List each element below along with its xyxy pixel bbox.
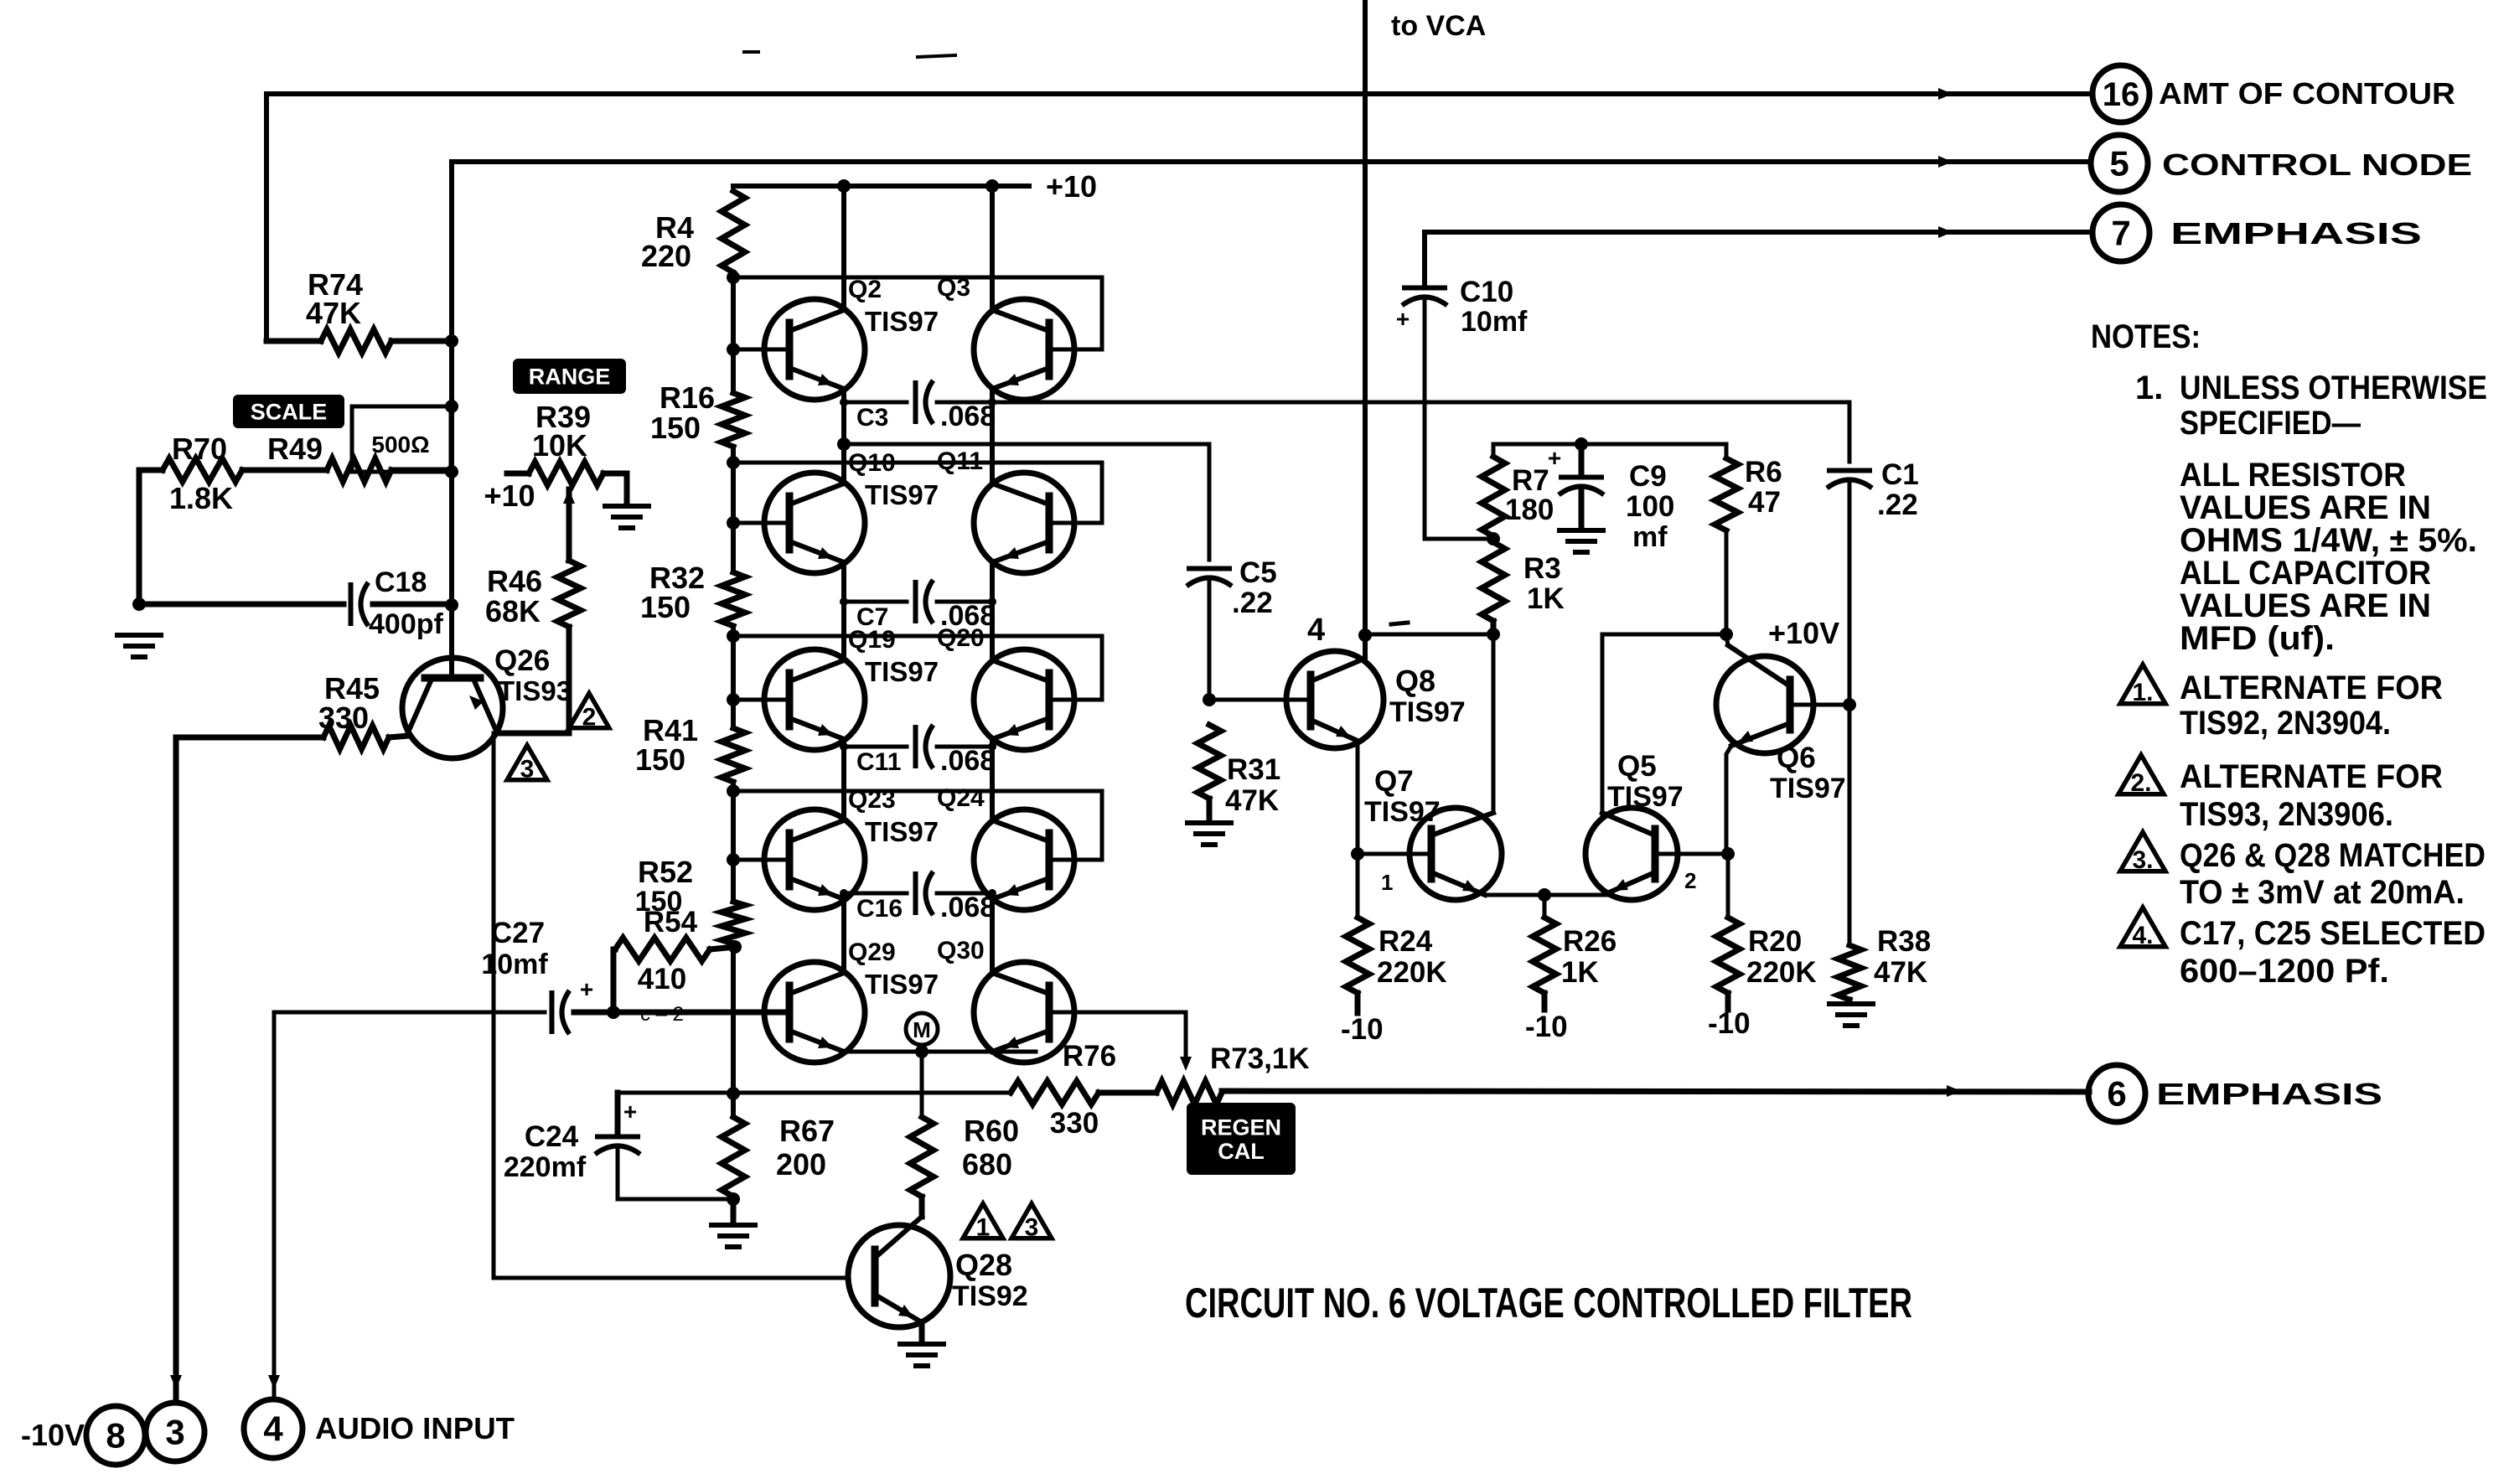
svg-text:R54: R54 xyxy=(644,906,698,938)
wire emitter Q24 to cap xyxy=(991,893,995,899)
wire ladder cell1-cell2 xyxy=(731,349,736,393)
Q8 collector diagonal xyxy=(1311,659,1364,681)
wire ladder R32-cell3 xyxy=(731,626,736,700)
Q8 base lead xyxy=(1209,698,1311,702)
svg-text:3: 3 xyxy=(165,1413,184,1452)
svg-text:TIS92: TIS92 xyxy=(952,1280,1028,1312)
note triangle 3 at Q28 xyxy=(1011,1203,1052,1238)
wire C24 bottom loop xyxy=(618,1146,733,1199)
svg-text:410: 410 xyxy=(638,963,686,995)
svg-text:ALL RESISTOR: ALL RESISTOR xyxy=(2180,457,2406,494)
transistor Q5 body xyxy=(1585,808,1678,900)
svg-text:150: 150 xyxy=(635,742,685,777)
resistor R31 xyxy=(1198,725,1221,799)
Q8 emitter arrow xyxy=(1336,726,1351,737)
node Q8 base xyxy=(1203,693,1216,706)
Q6 emitter arrow xyxy=(1738,731,1753,742)
node cap right C7 xyxy=(988,597,996,606)
wire Q5 base node to R20 xyxy=(1726,854,1730,918)
wire to VCA vertical xyxy=(1363,0,1368,660)
transistor Q19 body xyxy=(764,649,865,750)
wire R67 bottom to ground xyxy=(731,1199,737,1223)
wire ladder cell2-R32 xyxy=(731,523,736,572)
svg-text:150: 150 xyxy=(640,590,691,624)
node Q6 base xyxy=(1843,698,1856,711)
wire left end down xyxy=(139,470,163,508)
svg-text:ALTERNATE FOR: ALTERNATE FOR xyxy=(2180,670,2443,706)
svg-text:2: 2 xyxy=(582,703,597,731)
wire base loop Q20 to ladder xyxy=(733,636,1102,700)
svg-text:150: 150 xyxy=(650,411,701,445)
svg-text:+10: +10 xyxy=(484,478,535,513)
svg-text:ALTERNATE FOR: ALTERNATE FOR xyxy=(2180,758,2443,795)
svg-text:1: 1 xyxy=(976,1213,991,1241)
Q6 collector diagonal xyxy=(1728,645,1790,686)
node Q5 base/Q6 emitter xyxy=(1721,847,1735,861)
svg-text:16: 16 xyxy=(2103,76,2140,113)
svg-text:1.: 1. xyxy=(2135,370,2163,406)
node C9 top xyxy=(1575,437,1588,451)
svg-text:R26: R26 xyxy=(1563,925,1617,958)
svg-text:Q10: Q10 xyxy=(848,449,896,477)
svg-text:1K: 1K xyxy=(1527,582,1565,615)
wire Q26 emitter down to Q28 base xyxy=(494,733,848,1278)
Q7 emitter arrow xyxy=(1462,880,1477,892)
svg-text:4.: 4. xyxy=(2132,922,2153,949)
node C18 row xyxy=(445,598,458,612)
wire Q29/Q30 emitter row xyxy=(844,1050,1036,1054)
Q6 base lead xyxy=(1790,703,1849,707)
wire R45 to Q26 collector xyxy=(389,736,409,737)
svg-text:mf: mf xyxy=(1632,521,1668,553)
node 500-box top xyxy=(445,400,458,413)
svg-text:VALUES ARE IN: VALUES ARE IN xyxy=(2180,587,2431,624)
resistor R74 xyxy=(266,339,321,344)
svg-text:TIS97: TIS97 xyxy=(1607,781,1684,813)
node cap left C16 xyxy=(840,889,848,897)
node cap right C3 xyxy=(988,398,996,406)
svg-text:R67: R67 xyxy=(779,1114,835,1148)
svg-text:+10: +10 xyxy=(1046,169,1097,204)
svg-text:680: 680 xyxy=(962,1147,1012,1182)
svg-text:Q29: Q29 xyxy=(848,938,896,966)
resistor R7 xyxy=(1482,457,1505,536)
wire C24 top corner to R76 xyxy=(618,1091,1011,1095)
ground under C18 row xyxy=(117,633,161,638)
svg-text:Q20: Q20 xyxy=(937,624,985,652)
Q28 emitter diagonal xyxy=(875,1295,922,1322)
capacitor C1 xyxy=(1827,468,1872,473)
node Q7 base xyxy=(1351,847,1364,861)
resistor R4 xyxy=(722,191,745,272)
svg-text:8: 8 xyxy=(106,1416,125,1456)
note triangle 3 xyxy=(2120,832,2165,871)
right collector rail x=1184 xyxy=(990,186,995,310)
node cap right C11 xyxy=(988,742,996,751)
svg-text:Q26 & Q28 MATCHED: Q26 & Q28 MATCHED xyxy=(2180,837,2486,874)
Q5 collector diagonal xyxy=(1602,813,1655,835)
svg-text:Q19: Q19 xyxy=(848,626,896,654)
Q19 base lead xyxy=(733,698,789,702)
resistor R70 xyxy=(163,458,242,482)
svg-text:TIS93: TIS93 xyxy=(498,675,572,706)
capacitor C9 xyxy=(1559,475,1604,480)
wire emitter Q20 to cap xyxy=(991,739,995,747)
svg-text:+: + xyxy=(1396,306,1410,332)
Q29 base lead xyxy=(613,1011,789,1015)
svg-text:220: 220 xyxy=(641,239,691,273)
svg-text:47K: 47K xyxy=(1874,956,1927,989)
svg-text:R6: R6 xyxy=(1745,456,1782,489)
pin 3 xyxy=(146,1403,204,1461)
wire R24 lead xyxy=(1355,993,1361,1013)
svg-text:R46: R46 xyxy=(487,564,542,598)
svg-text:-10: -10 xyxy=(1708,1007,1751,1040)
wire ladder cell3-R41 xyxy=(731,700,736,728)
wire R45 left corner down xyxy=(176,737,323,1400)
svg-text:10mf: 10mf xyxy=(481,949,548,980)
svg-text:NOTES:: NOTES: xyxy=(2091,318,2201,355)
wire emitter Q11 to cap xyxy=(991,562,995,602)
node +10V xyxy=(1720,628,1733,641)
svg-text:C3: C3 xyxy=(856,404,888,432)
pin 6 xyxy=(2088,1065,2145,1122)
transistor Q20 body xyxy=(974,649,1074,750)
Q7 collector diagonal xyxy=(1431,813,1493,835)
pin 16 xyxy=(2092,65,2149,122)
Q5 emitter arrow xyxy=(1613,879,1628,891)
node +10 right collector rail xyxy=(985,179,999,193)
wire base loop Q3 to ladder xyxy=(733,277,1102,349)
wire C18 to main vertical xyxy=(373,602,452,608)
svg-text:47: 47 xyxy=(1748,486,1781,519)
resistor R52 xyxy=(722,902,745,944)
rail tap to C5 line xyxy=(844,442,1209,447)
Q28 collector diagonal xyxy=(875,1217,922,1258)
svg-text:UNLESS OTHERWISE: UNLESS OTHERWISE xyxy=(2180,370,2487,406)
arrow into pin 3 xyxy=(170,1375,182,1389)
transistor Q24 body xyxy=(974,809,1074,910)
ground under R38 xyxy=(1829,1001,1873,1006)
svg-text:10mf: 10mf xyxy=(1461,306,1528,338)
transistor Q11 body xyxy=(974,473,1074,573)
wire Q8 emitter down xyxy=(1356,741,1360,854)
wire cap row left xyxy=(844,600,907,604)
svg-text:.22: .22 xyxy=(1877,489,1918,521)
svg-text:Q26: Q26 xyxy=(494,644,550,677)
resistor R49 xyxy=(327,458,391,482)
wire ladder to R67 xyxy=(731,1094,736,1117)
transistor Q3 body xyxy=(974,299,1074,400)
Q26 emitter arrow xyxy=(469,695,484,710)
svg-text:R52: R52 xyxy=(638,855,693,889)
arrow into pin 4 xyxy=(268,1375,280,1389)
svg-text:RANGE: RANGE xyxy=(529,365,611,390)
wire audio node to Q29 base xyxy=(613,1010,789,1016)
svg-text:+10V: +10V xyxy=(1768,616,1839,650)
svg-text:CAL: CAL xyxy=(1218,1139,1265,1164)
wire cap row right xyxy=(937,892,992,896)
label RANGE xyxy=(513,359,626,394)
transistor Q30 body xyxy=(974,962,1074,1063)
node R49 row xyxy=(445,465,458,478)
node cell2 base xyxy=(727,516,740,530)
resistor R6 xyxy=(1715,458,1738,530)
svg-text:Q2: Q2 xyxy=(848,276,882,303)
svg-text:EMPHASIS: EMPHASIS xyxy=(2156,1077,2382,1111)
svg-text:C17, C25 SELECTED: C17, C25 SELECTED xyxy=(2180,915,2486,952)
Q28 emitter arrow xyxy=(898,1305,913,1317)
svg-text:Q11: Q11 xyxy=(937,447,983,475)
svg-text:R70: R70 xyxy=(172,432,227,466)
svg-text:Q24: Q24 xyxy=(937,784,985,812)
arrow on pin6 line xyxy=(1947,1085,1961,1097)
node emitter row R26 xyxy=(1538,888,1551,902)
stray mark 2 xyxy=(918,55,955,57)
svg-text:C16: C16 xyxy=(856,895,903,923)
wire cap row left xyxy=(844,892,907,896)
pin 8 xyxy=(86,1406,145,1465)
Q26 base bar xyxy=(425,675,480,682)
wire ladder R52-row1305 xyxy=(731,944,736,1094)
svg-text:TIS92, 2N3904.: TIS92, 2N3904. xyxy=(2180,705,2391,742)
node cell1 top xyxy=(727,271,740,284)
svg-text:TIS97: TIS97 xyxy=(865,479,939,510)
wire C27 to node xyxy=(574,1010,613,1016)
resistor R46 xyxy=(557,561,581,627)
wire emitter row to R26 xyxy=(1543,895,1547,918)
wire cell1 output to C1 corner xyxy=(992,402,1849,462)
Q26 base lead xyxy=(449,628,454,678)
svg-text:c – 2: c – 2 xyxy=(640,1003,684,1026)
svg-text:TIS97: TIS97 xyxy=(865,816,939,847)
capacitor C5 xyxy=(1187,566,1232,571)
resistor R67 xyxy=(722,1117,745,1197)
svg-text:Q30: Q30 xyxy=(937,937,985,964)
wire emitter Q23 to cap xyxy=(842,893,846,899)
svg-text:180: 180 xyxy=(1505,494,1554,526)
svg-text:C18: C18 xyxy=(375,566,427,598)
wire R26 lead xyxy=(1542,993,1548,1010)
node cell1 base xyxy=(727,343,740,356)
svg-text:330: 330 xyxy=(1050,1107,1099,1140)
svg-text:5: 5 xyxy=(2109,144,2129,184)
label REGEN CAL xyxy=(1187,1103,1296,1175)
wire main vertical to Q26 base xyxy=(449,341,454,628)
wire Q6 emitter down xyxy=(1726,746,1731,854)
svg-text:R3: R3 xyxy=(1523,552,1561,585)
wire C9 top lead xyxy=(1579,444,1585,477)
svg-text:MFD (uf).: MFD (uf). xyxy=(2180,620,2335,657)
R73 wiper arrow xyxy=(1180,1057,1192,1071)
svg-text:CONTROL NODE: CONTROL NODE xyxy=(2162,147,2472,182)
node cell5 top / R54 xyxy=(728,940,742,954)
transistor Q23 body xyxy=(764,809,865,910)
wire R39 left lead xyxy=(507,471,529,477)
transistor Q8 body xyxy=(1286,651,1384,748)
wire cap row right xyxy=(937,745,992,749)
svg-text:.068: .068 xyxy=(940,892,996,923)
note triangle 4 xyxy=(2120,907,2165,947)
svg-text:TIS97: TIS97 xyxy=(865,306,939,337)
wire arrow on line C xyxy=(1938,226,1953,238)
svg-text:Q6: Q6 xyxy=(1777,742,1816,774)
wire ladder R41-cell4 xyxy=(731,782,736,860)
svg-text:VALUES ARE IN: VALUES ARE IN xyxy=(2180,489,2431,526)
svg-text:TIS97: TIS97 xyxy=(1389,696,1466,728)
wire emitter Q2 to cap xyxy=(842,389,846,402)
svg-text:R73,1K: R73,1K xyxy=(1210,1042,1310,1075)
svg-text:-10V: -10V xyxy=(21,1418,85,1452)
resistor R73 xyxy=(1156,1081,1222,1104)
wire C9 to ground xyxy=(1579,487,1585,528)
stray mark xyxy=(744,50,758,54)
node cap left C7 xyxy=(840,597,848,606)
wire ladder cell4-R52 xyxy=(731,860,736,902)
Q6 base bar xyxy=(1787,680,1794,730)
svg-text:AUDIO INPUT: AUDIO INPUT xyxy=(315,1411,515,1445)
wire R60 to Q28 collector xyxy=(919,1197,925,1217)
node +10 left collector rail xyxy=(837,179,851,193)
svg-text:220K: 220K xyxy=(1377,956,1447,989)
svg-text:47K: 47K xyxy=(1225,784,1279,817)
svg-text:C9: C9 xyxy=(1629,460,1667,493)
svg-text:C10: C10 xyxy=(1460,276,1513,308)
ground under Q28 xyxy=(900,1342,944,1347)
svg-text:3: 3 xyxy=(520,755,535,783)
wire R20 lead xyxy=(1725,993,1731,1010)
transistor Q10 body xyxy=(764,473,865,573)
svg-text:500Ω: 500Ω xyxy=(371,432,429,458)
resistor R60 xyxy=(910,1117,934,1197)
Q5 base lead xyxy=(1655,852,1728,856)
ground under R31 xyxy=(1187,820,1231,825)
transistor Q7 body xyxy=(1410,808,1502,900)
match circle M xyxy=(906,1013,938,1045)
node cell4 top xyxy=(727,784,740,798)
note triangle 2 at Q26 xyxy=(569,693,609,727)
left collector rail x=1007 xyxy=(841,186,846,310)
svg-text:4: 4 xyxy=(263,1409,283,1449)
wire C10 bottom to R7/R3 node xyxy=(1425,300,1493,539)
note triangle 1 xyxy=(2120,664,2165,704)
svg-text:400pf: 400pf xyxy=(369,608,443,640)
svg-text:1.8K: 1.8K xyxy=(169,481,233,515)
svg-text:3: 3 xyxy=(1025,1213,1039,1241)
ground R39 xyxy=(605,504,649,509)
capacitor C24 xyxy=(595,1135,640,1140)
svg-text:.22: .22 xyxy=(1232,587,1273,619)
svg-text:R20: R20 xyxy=(1748,925,1802,958)
node cell3 base xyxy=(727,693,740,706)
svg-text:R60: R60 xyxy=(964,1114,1019,1148)
capacitor C3 xyxy=(913,380,918,424)
node R7/R3 xyxy=(1487,532,1500,546)
pin 4 xyxy=(244,1399,303,1458)
svg-text:68K: 68K xyxy=(485,594,541,628)
wire R73 to pin6 xyxy=(1222,1091,2089,1092)
wire R38 to ground xyxy=(1847,1000,1853,1002)
svg-text:R16: R16 xyxy=(660,380,715,415)
wire R49 to box xyxy=(391,468,452,473)
wiper R39 arrow xyxy=(563,489,575,504)
svg-text:+: + xyxy=(580,976,593,1002)
tick mark near 4 xyxy=(1391,623,1408,624)
transistor Q28 body xyxy=(848,1225,950,1327)
wire R39 right to ground xyxy=(603,473,627,504)
capacitor C11 xyxy=(913,725,918,768)
node R3 bottom xyxy=(1487,628,1500,641)
svg-text:CIRCUIT NO. 6 VOLTAGE CONTROLL: CIRCUIT NO. 6 VOLTAGE CONTROLLED FILTER xyxy=(1185,1280,1912,1326)
capacitor C10 xyxy=(1402,286,1447,291)
wire C1 to Q6 base node xyxy=(1848,480,1852,705)
resistor R3 xyxy=(1482,542,1505,621)
transistor Q6 body xyxy=(1716,656,1813,753)
node cap left C3 xyxy=(840,398,848,406)
wire collector row to R3 xyxy=(1365,633,1493,637)
wire Q7 collector up xyxy=(1492,634,1496,813)
svg-text:REGEN: REGEN xyxy=(1201,1114,1281,1140)
svg-text:TIS97: TIS97 xyxy=(1770,773,1846,804)
Q8 base bar xyxy=(1307,675,1315,726)
svg-text:R31: R31 xyxy=(1227,753,1280,786)
svg-text:Q8: Q8 xyxy=(1395,664,1435,698)
svg-text:220K: 220K xyxy=(1746,956,1817,989)
wire C5 vertical top xyxy=(1208,444,1212,560)
svg-text:3.: 3. xyxy=(2132,846,2153,874)
wire emitter Q3 to cap xyxy=(991,389,995,402)
Q23 base lead xyxy=(733,858,789,862)
wire Q7-Q5 emitter row xyxy=(1485,893,1607,897)
svg-text:C27: C27 xyxy=(491,917,545,949)
wire R3 to junction xyxy=(1491,621,1497,634)
svg-text:.068: .068 xyxy=(940,745,996,777)
Q7 base bar xyxy=(1428,829,1435,879)
svg-text:R49: R49 xyxy=(267,432,323,466)
svg-text:200: 200 xyxy=(776,1147,826,1182)
Q8 emitter diagonal xyxy=(1311,720,1358,741)
Q5 emitter diagonal xyxy=(1607,872,1655,893)
Q26 collector diagonal xyxy=(407,683,430,734)
node C18 left xyxy=(132,597,146,611)
svg-text:-10: -10 xyxy=(1525,1011,1568,1043)
capacitor C27 xyxy=(550,990,555,1034)
wire base loop Q24 to ladder xyxy=(733,791,1102,860)
Q26 emitter diagonal xyxy=(475,683,496,731)
svg-text:2.: 2. xyxy=(2130,769,2151,797)
svg-text:EMPHASIS: EMPHASIS xyxy=(2170,216,2422,251)
resistor R38 xyxy=(1838,945,1861,1000)
wire line A to pin 16 (AMT OF CONTOUR) xyxy=(266,94,2092,341)
svg-text:C1: C1 xyxy=(1881,458,1919,491)
wire C24 top xyxy=(615,1093,621,1136)
Q6 emitter diagonal xyxy=(1731,723,1790,746)
svg-text:7: 7 xyxy=(2111,214,2130,253)
label SCALE xyxy=(233,395,344,428)
svg-text:R24: R24 xyxy=(1379,925,1433,958)
wire C5 to base node xyxy=(1208,578,1212,700)
svg-text:220mf: 220mf xyxy=(504,1151,587,1183)
wire emitter Q10 to cap xyxy=(842,562,846,602)
Q7 base lead xyxy=(1358,852,1431,856)
wire cap row right xyxy=(937,401,992,405)
transistor Q2 body xyxy=(764,299,865,400)
transistor Q29 body xyxy=(764,962,865,1063)
wire Q6 base node down to R38 xyxy=(1848,705,1852,945)
wire R70-R49 xyxy=(242,468,327,473)
capacitor C7 xyxy=(913,580,918,623)
svg-text:TO ± 3mV at 20mA.: TO ± 3mV at 20mA. xyxy=(2180,874,2465,911)
